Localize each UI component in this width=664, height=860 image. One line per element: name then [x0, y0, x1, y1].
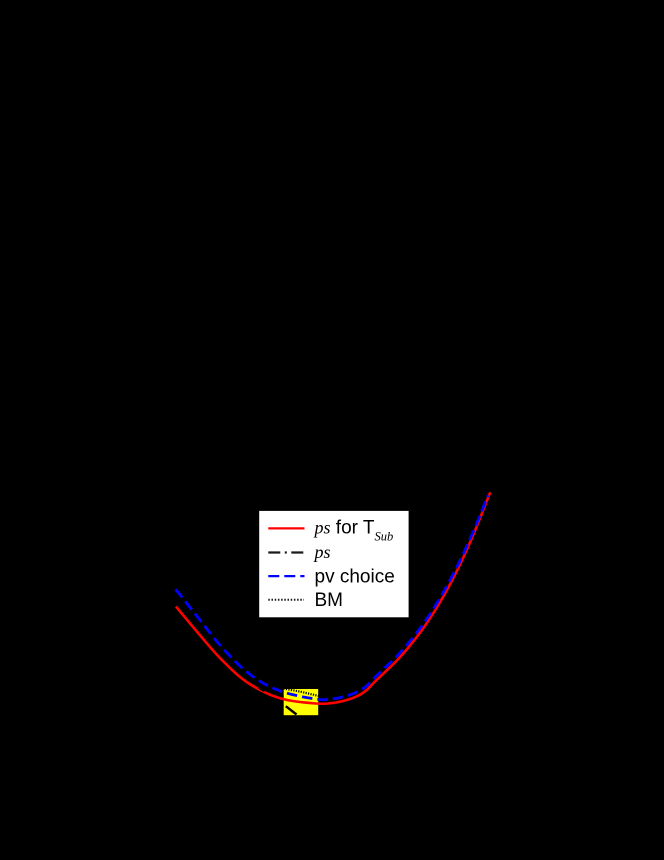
ps dash-dot black dash inside yellow patch [286, 706, 297, 714]
yellow highlight patch [284, 689, 319, 715]
legend box [259, 510, 409, 617]
BM dotted line segment over patch [284, 689, 319, 696]
legend sample: red solid line [268, 527, 304, 529]
svg-text:BM: BM [315, 590, 344, 611]
svg-text:pv choice: pv choice [315, 566, 395, 587]
legend sample: black dash-dot line [268, 551, 304, 553]
curve pv choice (blue dashed) [176, 495, 489, 699]
legend sample: blue dashed line [268, 575, 304, 577]
ps dash-dot black notch crossing red curve [259, 688, 265, 692]
svg-text:ps: ps [313, 542, 331, 562]
legend sample: black dotted line [268, 599, 304, 601]
curve ps for TSub (red solid) [176, 492, 490, 704]
